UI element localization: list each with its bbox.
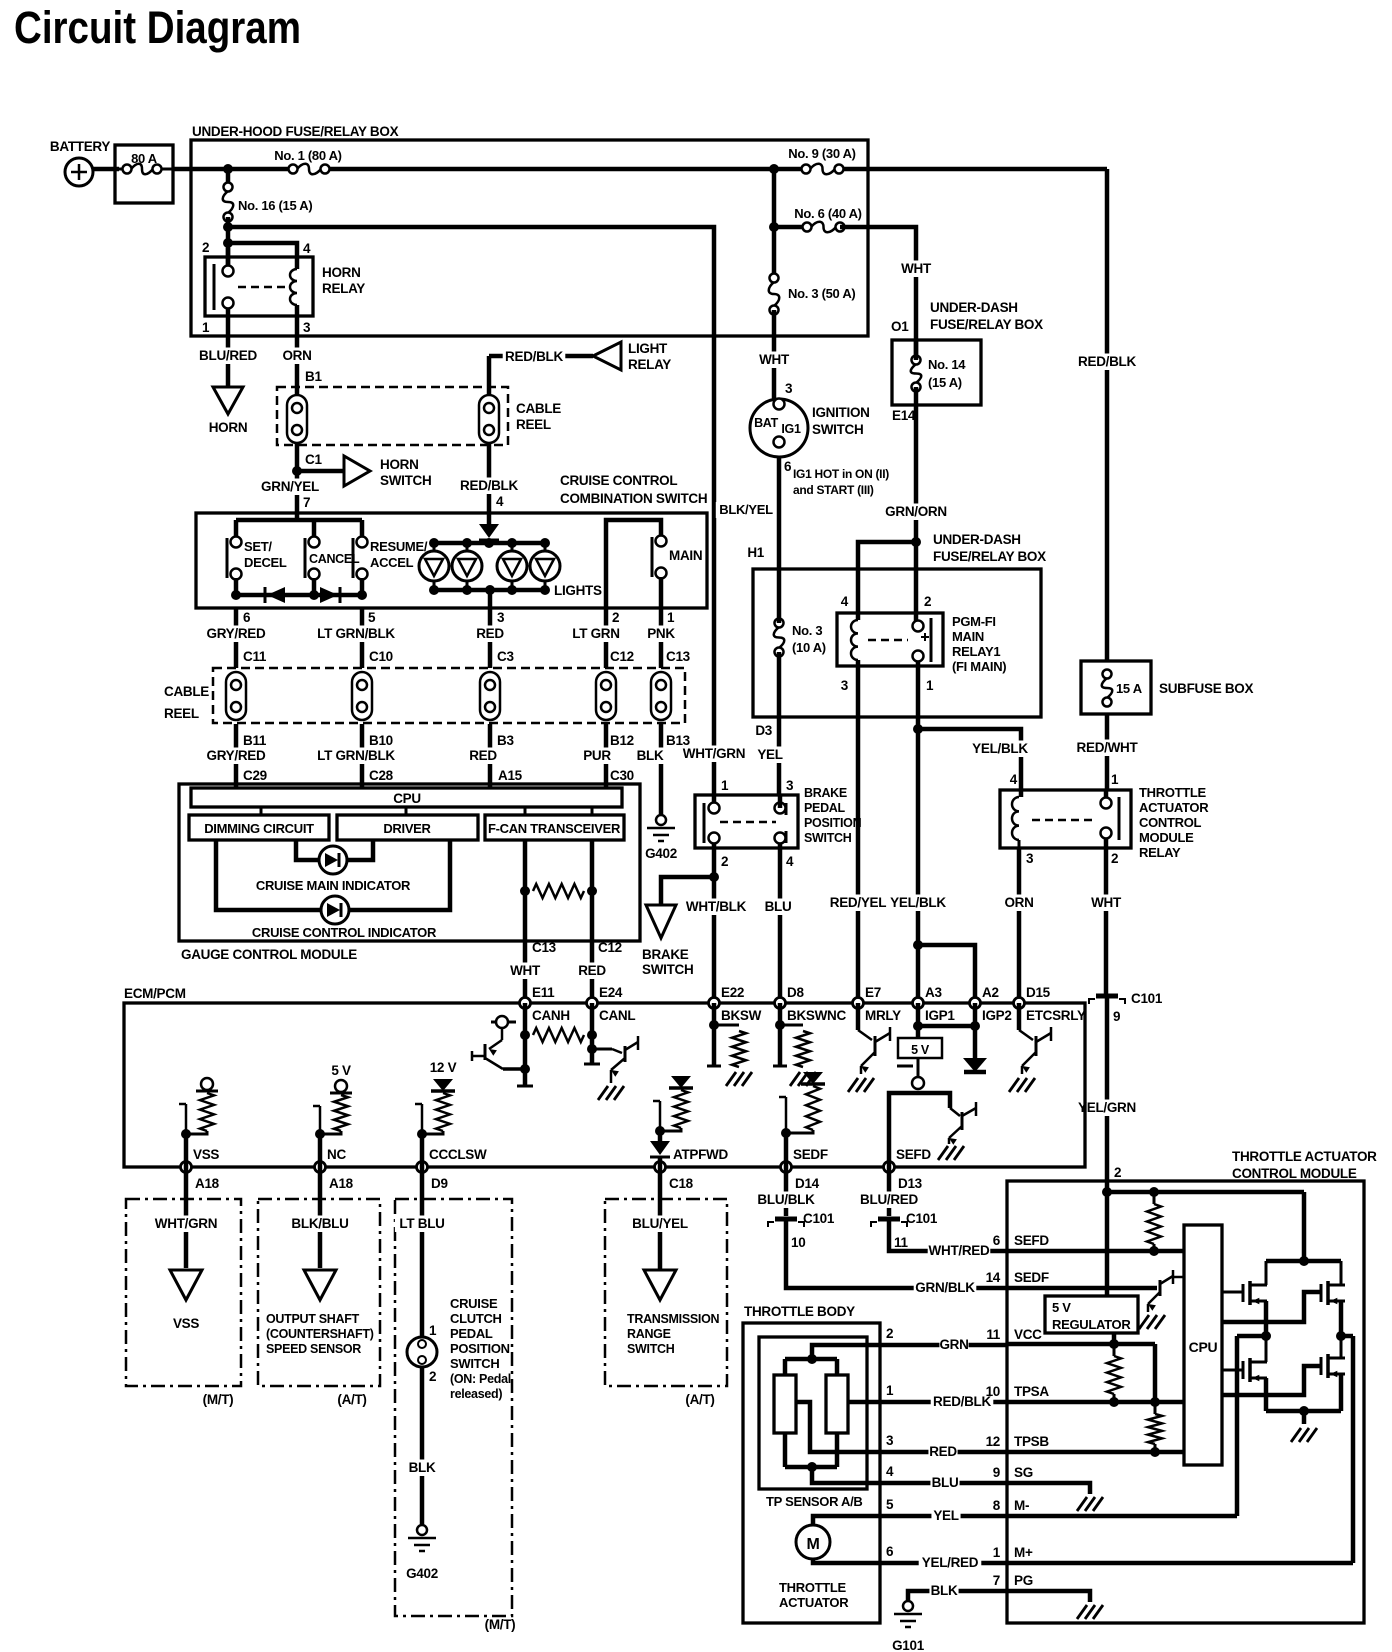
svg-text:(ON: Pedal: (ON: Pedal [450, 1372, 511, 1386]
TP sensor pot B [826, 1375, 848, 1433]
svg-text:RED/BLK: RED/BLK [933, 1394, 991, 1409]
svg-text:C13: C13 [532, 940, 557, 955]
fuse 80 A [115, 145, 173, 203]
diode D2 (points right) [320, 587, 338, 603]
svg-text:SEFD: SEFD [896, 1147, 931, 1162]
PG ground [1007, 1591, 1090, 1602]
svg-text:1: 1 [1111, 772, 1119, 787]
svg-text:RED: RED [469, 748, 497, 763]
svg-text:BLU/RED: BLU/RED [860, 1192, 918, 1207]
TP sensor bottom bar [783, 1433, 788, 1467]
svg-text:HORN: HORN [380, 457, 419, 472]
svg-text:C1: C1 [305, 452, 322, 467]
CANH pullup transistor [491, 1021, 516, 1024]
svg-text:C28: C28 [369, 768, 394, 783]
svg-text:E22: E22 [721, 985, 744, 1000]
wire BLU/BLK D14 to C101-10 [784, 1167, 789, 1216]
svg-text:ACCEL: ACCEL [370, 555, 414, 570]
ATPFWD pullup and diode [658, 1131, 663, 1141]
svg-text:LT GRN/BLK: LT GRN/BLK [317, 748, 395, 763]
wire to horn relay pin 4 [228, 243, 297, 269]
wire RED/BLK TPSA [848, 1400, 1007, 1405]
fuse No.16 15A [226, 169, 231, 187]
subfuse box 15A [1081, 661, 1151, 714]
TP sensor top bar [785, 1357, 837, 1362]
svg-text:C13: C13 [666, 649, 691, 664]
wire YEL M- [813, 1516, 1007, 1525]
svg-text:7: 7 [303, 495, 310, 510]
ETCSRLY transistor [1017, 1003, 1022, 1030]
TPSA line [1007, 1400, 1184, 1405]
VCC line [1112, 1333, 1117, 1344]
wire RED TPSB [796, 1402, 1007, 1452]
svg-text:PNK: PNK [647, 626, 675, 641]
MAIN switch [606, 520, 661, 608]
SEFD line [1007, 1249, 1184, 1254]
svg-text:YEL/BLK: YEL/BLK [890, 895, 946, 910]
IGP1 5V box [916, 1003, 921, 1038]
svg-text:THROTTLE ACTUATOR: THROTTLE ACTUATOR [1232, 1149, 1377, 1164]
svg-text:RED: RED [929, 1444, 957, 1459]
svg-text:BAT: BAT [754, 416, 779, 430]
svg-text:9: 9 [1113, 1009, 1120, 1024]
svg-text:6: 6 [243, 610, 251, 625]
svg-text:GRN/BLK: GRN/BLK [915, 1280, 975, 1295]
VSS pullup [184, 1134, 189, 1167]
svg-text:12 V: 12 V [430, 1060, 457, 1075]
wire BLU SG [812, 1467, 1007, 1483]
brake switch branch [712, 795, 717, 808]
svg-text:1: 1 [886, 1383, 894, 1398]
svg-text:Circuit Diagram: Circuit Diagram [14, 2, 301, 53]
lamps bottom bar [434, 588, 545, 593]
svg-text:MAIN: MAIN [669, 548, 702, 563]
svg-text:DIMMING CIRCUIT: DIMMING CIRCUIT [204, 821, 314, 836]
svg-text:No. 14: No. 14 [928, 357, 966, 372]
svg-text:LT GRN: LT GRN [572, 626, 619, 641]
wire RED/YEL PGM relay pin3 to E7 [856, 660, 861, 1003]
svg-text:RED/BLK: RED/BLK [505, 349, 563, 364]
fuse No.14 15A [911, 364, 922, 383]
wire branch to TAC relay coil [918, 729, 1021, 790]
svg-text:C30: C30 [610, 768, 634, 783]
svg-text:IGNITION: IGNITION [812, 405, 870, 420]
light relay [489, 354, 593, 359]
svg-text:YEL: YEL [757, 747, 782, 762]
svg-text:REEL: REEL [516, 417, 551, 432]
svg-text:11: 11 [986, 1327, 1000, 1342]
switch RESUME/ACCEL [352, 538, 355, 578]
wire ORN horn relay pin3 [295, 316, 300, 394]
wire RED/BLK down to cable reel [487, 356, 492, 394]
lamps [433, 543, 436, 551]
svg-text:2: 2 [924, 594, 931, 609]
svg-text:11: 11 [894, 1235, 908, 1250]
svg-text:1: 1 [993, 1545, 1001, 1560]
ECM top pin circles [520, 998, 531, 1009]
BKSWNC internals [778, 1003, 783, 1066]
svg-text:M-: M- [1014, 1498, 1029, 1513]
svg-text:SWITCH: SWITCH [627, 1342, 675, 1356]
connector C3/B3 [480, 672, 500, 720]
svg-text:1: 1 [429, 1323, 437, 1338]
svg-text:8: 8 [993, 1498, 1001, 1513]
connector B1 oval [287, 395, 307, 443]
lamps group diode [487, 513, 492, 524]
svg-text:9: 9 [993, 1465, 1000, 1480]
svg-text:released): released) [450, 1387, 502, 1401]
connector cable reel right oval [479, 395, 499, 443]
ignition switch [750, 399, 808, 457]
svg-text:FUSE/RELAY BOX: FUSE/RELAY BOX [930, 317, 1043, 332]
fuse No.3 50A [769, 282, 780, 306]
svg-text:2: 2 [1111, 851, 1118, 866]
svg-text:6: 6 [993, 1233, 1001, 1248]
svg-text:OUTPUT SHAFT: OUTPUT SHAFT [266, 1312, 360, 1326]
svg-text:D13: D13 [898, 1176, 923, 1191]
cruise main indicator LED [296, 840, 319, 860]
wire YEL/GRN to throttle module [1105, 998, 1110, 1192]
svg-text:RELAY: RELAY [1139, 845, 1181, 860]
brake switch stub [661, 877, 714, 905]
wires cable reel to gauge module [234, 724, 239, 788]
svg-text:No. 16 (15 A): No. 16 (15 A) [238, 198, 312, 213]
ECM bottom pin circles [181, 1162, 192, 1173]
wire main Y1 run [173, 167, 293, 172]
wire No.16 to WHT/GRN column [228, 227, 714, 795]
svg-text:4: 4 [841, 594, 849, 609]
svg-text:PEDAL: PEDAL [804, 801, 846, 815]
svg-text:SET/: SET/ [244, 539, 272, 554]
driver box [337, 815, 478, 840]
throttle actuator motor [796, 1525, 830, 1559]
svg-text:POSITION: POSITION [804, 816, 862, 830]
svg-text:REEL: REEL [164, 706, 199, 721]
svg-text:B10: B10 [369, 733, 393, 748]
wire BLU/RED D13 to C101-11 [887, 1167, 892, 1216]
svg-text:F-CAN TRANSCEIVER: F-CAN TRANSCEIVER [488, 821, 621, 836]
svg-text:D9: D9 [431, 1176, 448, 1191]
mid-right node to M+ [1336, 1331, 1346, 1341]
svg-text:LIGHT: LIGHT [628, 341, 668, 356]
svg-text:GRN: GRN [939, 1337, 968, 1352]
svg-text:RED: RED [578, 963, 606, 978]
svg-text:D14: D14 [795, 1176, 820, 1191]
svg-text:BKSWNC: BKSWNC [787, 1008, 846, 1023]
H-bridge bottom rail and ground [1266, 1409, 1341, 1414]
svg-text:4: 4 [786, 854, 794, 869]
combo switch top bar [295, 513, 300, 520]
svg-text:SWITCH: SWITCH [642, 962, 693, 977]
mosfet Q1 upper-left [1222, 1291, 1243, 1294]
svg-text:CLUTCH: CLUTCH [450, 1311, 502, 1326]
mosfet Q2 upper-right [1222, 1292, 1321, 1322]
svg-text:RED/BLK: RED/BLK [1078, 354, 1136, 369]
svg-text:SEDF: SEDF [1014, 1270, 1049, 1285]
svg-text:BLK/BLU: BLK/BLU [291, 1216, 348, 1231]
svg-text:ORN: ORN [1004, 895, 1033, 910]
svg-text:BKSW: BKSW [721, 1008, 762, 1023]
svg-text:MODULE: MODULE [1139, 830, 1194, 845]
mosfet Q4 lower-right [1222, 1366, 1321, 1395]
svg-text:WHT/BLK: WHT/BLK [686, 899, 747, 914]
svg-text:IG1: IG1 [781, 422, 801, 436]
svg-text:HORN: HORN [322, 265, 361, 280]
wire ignition to under-dash box [777, 457, 782, 569]
svg-text:10: 10 [791, 1235, 805, 1250]
svg-text:THROTTLE: THROTTLE [1139, 785, 1207, 800]
wire ORN TAC relay pin3 to D15 [1018, 840, 1021, 848]
svg-text:SWITCH: SWITCH [804, 831, 852, 845]
svg-text:GRY/RED: GRY/RED [207, 626, 266, 641]
svg-text:BLU/RED: BLU/RED [199, 348, 257, 363]
svg-text:A2: A2 [982, 985, 999, 1000]
svg-text:15 A: 15 A [1116, 681, 1143, 696]
svg-text:RESUME/: RESUME/ [370, 539, 428, 554]
wire GRN/BLK to module pin 14 [786, 1221, 1007, 1288]
svg-text:MRLY: MRLY [865, 1008, 901, 1023]
svg-text:GRN/ORN: GRN/ORN [885, 504, 947, 519]
svg-text:GRN/YEL: GRN/YEL [261, 479, 319, 494]
wire D3 YEL to brake switch pin3 [777, 717, 782, 795]
CPU bar [191, 788, 622, 807]
CPU box [1184, 1225, 1222, 1465]
combo switch bottom bar with diodes [234, 578, 239, 595]
svg-text:SWITCH: SWITCH [380, 473, 431, 488]
svg-text:4: 4 [496, 494, 504, 509]
svg-text:No. 3: No. 3 [792, 623, 822, 638]
svg-text:CANL: CANL [599, 1008, 635, 1023]
svg-text:E11: E11 [532, 985, 555, 1000]
svg-text:BATTERY: BATTERY [50, 139, 110, 154]
svg-text:VSS: VSS [173, 1316, 199, 1331]
wire PGM relay pin1 YEL/BLK [916, 661, 921, 1003]
svg-text:5: 5 [368, 610, 376, 625]
output shaft speed sensor box [258, 1199, 380, 1386]
SEDF line and transistor [1007, 1286, 1157, 1291]
svg-text:TP SENSOR A/B: TP SENSOR A/B [766, 1494, 863, 1509]
svg-text:THROTTLE BODY: THROTTLE BODY [744, 1304, 855, 1319]
5V regulator [1105, 1192, 1110, 1296]
horn symbol [213, 387, 243, 414]
svg-text:RED/BLK: RED/BLK [460, 478, 518, 493]
svg-text:GAUGE CONTROL MODULE: GAUGE CONTROL MODULE [181, 947, 357, 962]
IGP2 ground [973, 1003, 978, 1058]
svg-text:2: 2 [202, 240, 209, 255]
svg-text:3: 3 [786, 778, 794, 793]
fuse No.6 40A [772, 169, 777, 278]
svg-text:(A/T): (A/T) [337, 1392, 366, 1407]
svg-text:THROTTLE: THROTTLE [779, 1580, 847, 1595]
F-CAN transceiver box [485, 815, 624, 840]
F-CAN output wires [523, 840, 528, 1003]
svg-text:WHT/GRN: WHT/GRN [683, 746, 745, 761]
svg-text:CRUISE CONTROL: CRUISE CONTROL [560, 473, 677, 488]
svg-text:No. 6 (40 A): No. 6 (40 A) [794, 206, 861, 221]
svg-text:3: 3 [1026, 851, 1034, 866]
MRLY transistor [856, 1003, 861, 1030]
svg-text:WHT/GRN: WHT/GRN [155, 1216, 217, 1231]
svg-text:DRIVER: DRIVER [383, 821, 431, 836]
wire RED/WHT subfuse to TAC relay [1105, 714, 1110, 790]
svg-text:6: 6 [784, 459, 792, 474]
svg-text:REGULATOR: REGULATOR [1052, 1317, 1131, 1332]
svg-text:No. 3 (50 A): No. 3 (50 A) [788, 286, 855, 301]
svg-text:2: 2 [429, 1369, 436, 1384]
svg-text:ACTUATOR: ACTUATOR [779, 1595, 849, 1610]
svg-text:ORN: ORN [282, 348, 311, 363]
svg-text:B3: B3 [497, 733, 514, 748]
svg-text:PGM-FI: PGM-FI [952, 614, 996, 629]
svg-text:4: 4 [886, 1464, 894, 1479]
svg-text:FUSE/RELAY BOX: FUSE/RELAY BOX [933, 549, 1046, 564]
ground G101 [903, 1601, 913, 1611]
wire BLK B13 to G402 [659, 724, 664, 815]
wire WHT/RED to module pin 6 [889, 1221, 1007, 1251]
svg-text:ECM/PCM: ECM/PCM [124, 986, 186, 1001]
svg-text:PUR: PUR [583, 748, 611, 763]
svg-text:H1: H1 [747, 545, 764, 560]
mosfet Q3 lower-left [1222, 1369, 1243, 1372]
svg-text:12: 12 [986, 1434, 1000, 1449]
svg-text:3: 3 [841, 678, 849, 693]
svg-text:CPU: CPU [1189, 1339, 1218, 1355]
svg-text:3: 3 [497, 610, 505, 625]
svg-text:M+: M+ [1014, 1545, 1033, 1560]
svg-text:1: 1 [721, 778, 729, 793]
svg-text:IGP1: IGP1 [925, 1008, 955, 1023]
svg-text:RELAY: RELAY [628, 357, 671, 372]
svg-text:C12: C12 [610, 649, 634, 664]
resistor TPSA-TPSB [1148, 1414, 1162, 1444]
TP sensor pot A [774, 1375, 796, 1433]
resistor VCC-TPSA [1107, 1356, 1121, 1394]
svg-text:G101: G101 [892, 1638, 925, 1652]
cruise clutch pedal position switch box [395, 1199, 512, 1616]
svg-text:CRUISE MAIN INDICATOR: CRUISE MAIN INDICATOR [256, 878, 411, 893]
TP sensor inner box [759, 1337, 867, 1489]
cruise control indicator LED [216, 840, 321, 910]
svg-text:SUBFUSE BOX: SUBFUSE BOX [1159, 681, 1254, 696]
svg-text:POSITION: POSITION [450, 1341, 510, 1356]
BKSW internals [712, 1003, 717, 1066]
wire BLU/RED horn relay pin1 to horn [226, 316, 231, 387]
CANH line internals [523, 1003, 528, 1086]
svg-text:TRANSMISSION: TRANSMISSION [627, 1312, 720, 1326]
svg-text:G402: G402 [406, 1566, 438, 1581]
svg-text:YEL/BLK: YEL/BLK [972, 741, 1028, 756]
svg-text:C10: C10 [369, 649, 393, 664]
svg-text:BLK: BLK [409, 1460, 436, 1475]
svg-text:RELAY1: RELAY1 [952, 644, 1000, 659]
svg-text:CONTROL: CONTROL [1139, 815, 1202, 830]
svg-text:C18: C18 [669, 1176, 694, 1191]
svg-text:YEL/GRN: YEL/GRN [1078, 1100, 1136, 1115]
svg-text:(M/T): (M/T) [203, 1392, 234, 1407]
svg-text:B11: B11 [243, 733, 267, 748]
svg-text:C101: C101 [803, 1211, 835, 1226]
svg-text:2: 2 [721, 854, 728, 869]
svg-text:No. 1 (80 A): No. 1 (80 A) [274, 148, 341, 163]
svg-text:BLU: BLU [765, 899, 792, 914]
svg-text:ATPFWD: ATPFWD [673, 1147, 728, 1162]
rail resistor to SEFD [1147, 1204, 1161, 1244]
svg-text:A18: A18 [195, 1176, 220, 1191]
svg-text:CONTROL MODULE: CONTROL MODULE [1232, 1166, 1357, 1181]
CANL line internals [590, 1003, 595, 1064]
SEDF pullup [784, 1133, 789, 1167]
switch CANCEL [304, 538, 307, 578]
svg-text:5 V: 5 V [1052, 1300, 1071, 1315]
cable reel upper (dashed box) [277, 387, 508, 445]
cpu stubs [260, 807, 263, 815]
svg-text:5 V: 5 V [331, 1063, 351, 1078]
svg-text:LT BLU: LT BLU [399, 1216, 444, 1231]
svg-text:1: 1 [926, 678, 934, 693]
svg-text:A18: A18 [329, 1176, 354, 1191]
wire YEL/RED M+ [813, 1559, 1007, 1563]
svg-text:and START (III): and START (III) [793, 483, 874, 497]
svg-text:PG: PG [1014, 1573, 1033, 1588]
svg-text:CPU: CPU [393, 791, 421, 806]
svg-text:14: 14 [986, 1270, 1001, 1285]
svg-text:A15: A15 [498, 768, 523, 783]
svg-text:SWITCH: SWITCH [812, 422, 863, 437]
switch SET/DECEL [226, 538, 229, 578]
svg-text:G402: G402 [645, 846, 677, 861]
wire GRN/YEL B1 to combo switch pin 7 [295, 443, 300, 513]
svg-text:CABLE: CABLE [516, 401, 561, 416]
svg-text:1: 1 [667, 610, 675, 625]
svg-text:C101: C101 [1131, 991, 1163, 1006]
brake pedal position switch [695, 795, 798, 848]
svg-text:YEL/RED: YEL/RED [922, 1555, 979, 1570]
svg-text:O1: O1 [891, 319, 909, 334]
svg-text:RED/YEL: RED/YEL [830, 895, 886, 910]
svg-text:RED/WHT: RED/WHT [1077, 740, 1139, 755]
svg-text:IGP2: IGP2 [982, 1008, 1012, 1023]
svg-text:(M/T): (M/T) [485, 1617, 516, 1632]
wire RED/BLK cable reel to combo switch pin 4 [487, 443, 492, 513]
svg-text:UNDER-DASH: UNDER-DASH [933, 532, 1021, 547]
svg-text:LT GRN/BLK: LT GRN/BLK [317, 626, 395, 641]
connector C10/B10 [352, 672, 372, 720]
svg-text:VSS: VSS [193, 1147, 219, 1162]
svg-text:(A/T): (A/T) [685, 1392, 714, 1407]
svg-text:(10 A): (10 A) [792, 640, 826, 655]
svg-text:C29: C29 [243, 768, 267, 783]
terminating resistor [533, 884, 584, 898]
svg-text:BRAKE: BRAKE [804, 786, 847, 800]
svg-text:3: 3 [886, 1433, 894, 1448]
svg-text:(15 A): (15 A) [928, 375, 962, 390]
svg-text:DECEL: DECEL [244, 555, 287, 570]
wire lamps to pin 3 [488, 590, 493, 608]
gauge control module box [179, 784, 640, 941]
svg-text:3: 3 [785, 381, 793, 396]
SG ground [1007, 1483, 1090, 1494]
svg-text:SWITCH: SWITCH [450, 1356, 499, 1371]
svg-text:BLU/YEL: BLU/YEL [632, 1216, 688, 1231]
svg-text:YEL: YEL [933, 1508, 958, 1523]
svg-text:IG1 HOT in ON (II): IG1 HOT in ON (II) [793, 467, 889, 481]
svg-text:(FI MAIN): (FI MAIN) [952, 659, 1006, 674]
connector C13/B13 [651, 672, 671, 720]
cable reel lower dashed box [213, 668, 685, 723]
ignition switch wires WHT [759, 352, 788, 369]
svg-text:B1: B1 [305, 369, 322, 384]
svg-text:BLK: BLK [637, 748, 664, 763]
